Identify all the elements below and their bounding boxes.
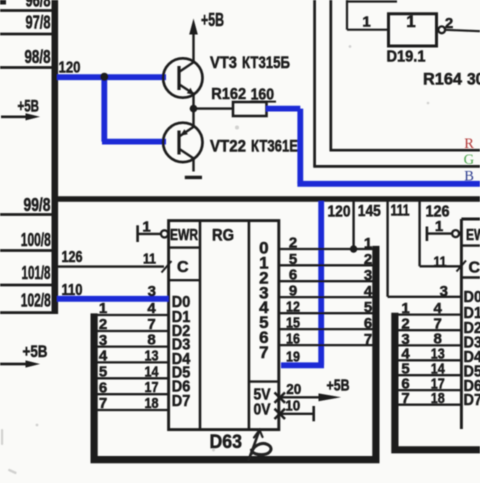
wire R video vertical <box>329 0 332 150</box>
svg-text:B: B <box>464 168 474 184</box>
svg-text:8: 8 <box>147 332 155 349</box>
bus separator line 2 <box>0 33 52 36</box>
signal letter R (red) <box>464 136 474 152</box>
svg-text:R162: R162 <box>211 86 246 103</box>
output label 1 <box>259 254 268 273</box>
wire D63 pin19 to net 120 (blue) <box>281 362 324 368</box>
label KT315B type <box>242 53 290 72</box>
connector X2 pin label 1 <box>364 235 372 252</box>
svg-text:7: 7 <box>147 316 155 333</box>
label D0 <box>172 294 191 311</box>
pin number 17 <box>145 379 159 396</box>
bus separator line 4 <box>0 213 52 216</box>
label VT22 <box>210 137 246 156</box>
label D5 right chip <box>464 364 480 381</box>
output label 4 <box>259 298 269 317</box>
connector X1 pin label 3 <box>99 332 107 349</box>
connector X3 pin label 3 <box>401 331 409 348</box>
thick border line of lower section <box>55 196 480 202</box>
wire net 126 vertical <box>418 202 420 267</box>
node junction dot emitters <box>190 105 198 113</box>
svg-text:5: 5 <box>289 251 297 268</box>
svg-text:3: 3 <box>440 283 448 300</box>
label EWR right chip <box>466 227 480 244</box>
svg-text:6: 6 <box>364 315 372 332</box>
svg-text:2: 2 <box>445 15 453 32</box>
junction dot net 145 <box>350 245 357 252</box>
output label 3 <box>259 283 268 302</box>
svg-text:7: 7 <box>401 390 409 407</box>
D63 divider below C <box>169 279 200 281</box>
svg-text:2: 2 <box>364 251 372 268</box>
wire G video vertical <box>313 0 316 166</box>
pin number 14 right chip <box>431 360 446 377</box>
svg-text:+5B: +5B <box>23 342 48 361</box>
wire down right of R162 (blue) <box>297 109 303 184</box>
svg-text:VT22: VT22 <box>210 137 246 156</box>
svg-text:D7: D7 <box>172 393 191 410</box>
chip D64 top edge <box>461 218 480 221</box>
wire to gate input vertical <box>346 0 348 30</box>
svg-text:4: 4 <box>434 300 443 317</box>
output label 7 <box>259 343 268 362</box>
net label 111 <box>391 203 410 220</box>
connector X1 pin label 7 <box>99 395 107 412</box>
clock slash right chip <box>457 261 467 272</box>
svg-text:96/8: 96/8 <box>26 0 51 11</box>
bus separator line 1 <box>0 9 52 12</box>
svg-text:5: 5 <box>99 364 107 381</box>
svg-text:16: 16 <box>286 331 300 348</box>
pin number 20 <box>286 381 301 398</box>
svg-text:C: C <box>469 260 480 277</box>
op-amp gate D19.1 box <box>389 14 437 46</box>
label D63 <box>210 432 243 453</box>
junction dot net 120 <box>100 73 108 81</box>
D63 divider below EWR <box>169 246 200 248</box>
bus label 101/8 <box>22 263 51 283</box>
label D3 <box>172 337 191 354</box>
label EWR <box>170 227 198 244</box>
svg-text:0V: 0V <box>254 402 271 419</box>
clock slash D63 <box>162 261 172 273</box>
label R162 <box>211 86 246 103</box>
svg-text:17: 17 <box>145 379 159 396</box>
pin number 5 <box>289 251 297 268</box>
output label 0 <box>259 239 268 258</box>
label D4 <box>172 351 191 368</box>
EWR pin tick <box>136 225 139 242</box>
svg-text:+5B: +5B <box>327 378 350 395</box>
label D5 <box>172 365 191 382</box>
EWR bubble right chip <box>452 230 459 237</box>
pin number 9 <box>289 283 297 300</box>
pin number 3 right chip <box>440 283 448 300</box>
scan edge blob top-left <box>0 0 6 5</box>
power label +5B upper-left <box>18 97 40 116</box>
net label 145 <box>358 203 381 220</box>
wire right chip D2 row <box>396 329 461 331</box>
svg-text:G: G <box>464 152 475 168</box>
output label 6 <box>259 328 268 347</box>
pin number 8 <box>147 332 155 349</box>
pin number 4 right chip <box>434 300 443 317</box>
pin number 12 <box>286 299 300 316</box>
pin number 17 right chip <box>431 375 445 392</box>
svg-text:1: 1 <box>99 300 107 317</box>
pin number 1 EWR <box>142 219 150 236</box>
D63 divider right column <box>248 221 251 430</box>
svg-text:9: 9 <box>289 283 297 300</box>
svg-text:18: 18 <box>145 395 159 412</box>
gate function label 1 <box>406 12 415 31</box>
svg-text:D0: D0 <box>464 289 480 306</box>
pin number 13 <box>145 347 159 364</box>
svg-text:+5B: +5B <box>18 97 40 116</box>
wire D1 input row <box>92 314 169 316</box>
wire net 120 vertical (blue) <box>318 201 324 365</box>
connector X3 pin label 7 <box>401 390 409 407</box>
wire D3 input row <box>92 345 169 347</box>
D64 divider below C <box>461 276 480 278</box>
svg-text:98/8: 98/8 <box>25 47 51 67</box>
D63 divider above 5V <box>249 380 279 382</box>
wire node to R162 <box>194 107 234 109</box>
svg-text:18: 18 <box>431 390 445 407</box>
svg-text:10: 10 <box>285 398 300 415</box>
svg-text:12: 12 <box>286 299 300 316</box>
pin number 11 right chip <box>434 253 447 270</box>
pin number 18 <box>145 395 159 412</box>
power label +5B at D63 <box>327 378 350 395</box>
svg-text:R164: R164 <box>423 70 463 89</box>
power arrow upper-left <box>1 113 40 120</box>
pin number 11 <box>143 251 156 268</box>
power arrow +5B at VT3 collector <box>189 19 198 35</box>
label 5V <box>254 387 271 404</box>
wire right chip D3 row <box>396 344 461 346</box>
wire net 120 branch down (blue) <box>101 75 107 142</box>
label D7 right chip <box>464 392 480 409</box>
pin number 6 <box>289 267 297 284</box>
scan noise marks <box>1 45 429 474</box>
svg-text:6: 6 <box>289 267 297 284</box>
connector X2 pin label 5 <box>364 299 372 316</box>
svg-text:1: 1 <box>401 300 409 317</box>
bus separator line 3 <box>0 66 52 69</box>
pin number 19 <box>286 349 300 366</box>
pin number 15 <box>286 315 300 332</box>
label VT3 <box>210 53 237 72</box>
svg-text:D7: D7 <box>464 392 480 409</box>
svg-text:2: 2 <box>99 316 107 333</box>
connector X3 pin label 4 <box>401 346 410 363</box>
bus label 97/8 <box>26 13 51 33</box>
wire stub top edge <box>347 0 397 2</box>
svg-text:99/8: 99/8 <box>24 195 51 215</box>
output label 5 <box>259 313 268 332</box>
pin number 13 right chip <box>431 346 445 363</box>
wire D7 input row <box>92 409 169 411</box>
svg-text:120: 120 <box>59 60 81 77</box>
EWR pin tick right chip <box>426 227 429 242</box>
label D2 right chip <box>464 320 480 337</box>
svg-text:300: 300 <box>467 70 480 89</box>
label C <box>177 259 189 276</box>
svg-text:100/8: 100/8 <box>21 230 51 250</box>
svg-text:7: 7 <box>259 343 268 362</box>
svg-text:15: 15 <box>286 315 300 332</box>
connector X3 pin label 5 <box>401 361 409 378</box>
net label 126 at bus <box>62 249 83 266</box>
net label 120 top row <box>328 204 351 221</box>
power label +5B lower-left <box>23 342 48 361</box>
wire right chip D6 row <box>396 389 461 391</box>
wire EWR pin right chip <box>427 232 452 234</box>
bus label 100/8 <box>21 230 51 250</box>
transistor VT22 <box>163 109 202 172</box>
svg-text:VT3: VT3 <box>210 53 237 72</box>
pin number 18 right chip <box>431 390 445 407</box>
label C right chip <box>469 260 480 277</box>
wire output row 3 <box>279 280 373 282</box>
svg-text:97/8: 97/8 <box>26 13 51 33</box>
pen scribble mark <box>249 430 271 460</box>
EWR inversion bubble <box>161 230 168 237</box>
svg-text:111: 111 <box>391 203 410 220</box>
svg-text:5: 5 <box>364 299 372 316</box>
svg-text:13: 13 <box>145 347 159 364</box>
ground symbol at VT22 collector <box>185 176 202 179</box>
bus separator line 5 <box>0 249 52 252</box>
svg-text:20: 20 <box>286 381 301 398</box>
svg-text:3: 3 <box>148 283 156 300</box>
bus label 96/8 (clipped) <box>26 0 51 11</box>
label R164 <box>423 70 463 89</box>
connector X2 pin label 4 <box>364 283 373 300</box>
label D19.1 <box>387 49 426 66</box>
pin number 7 <box>147 316 155 333</box>
label D7 <box>172 393 191 410</box>
wire D4 input row <box>92 361 169 363</box>
wire gate output <box>445 30 480 31</box>
label D6 <box>172 379 191 396</box>
0V pin tick <box>312 406 315 421</box>
connector X1 pin label 1 <box>99 300 107 317</box>
register chip D64 left edge <box>460 219 463 429</box>
connector X3 pin label 1 <box>401 300 409 317</box>
connector frame 2 (thick) <box>395 313 480 450</box>
resistor R162 <box>233 102 267 116</box>
wire output row 1 <box>279 248 373 250</box>
svg-text:1: 1 <box>364 235 372 252</box>
svg-text:3: 3 <box>364 267 372 284</box>
svg-text:101/8: 101/8 <box>22 263 51 283</box>
wire B video to right edge (blue) <box>297 181 480 187</box>
label D4 right chip <box>464 349 480 366</box>
wire from R162 (blue) <box>266 106 300 112</box>
connector X1 pin label 6 <box>99 379 107 396</box>
connector X3 pin label 6 <box>401 376 409 393</box>
wire right chip D4 row <box>396 359 461 361</box>
wire net 111 to D0 <box>388 296 461 298</box>
connector X1 pin label 2 <box>99 316 107 333</box>
label RG <box>212 226 234 245</box>
svg-text:RG: RG <box>212 226 234 245</box>
wire net 120 to VT3 base (blue) <box>57 74 166 80</box>
label D3 right chip <box>464 335 480 352</box>
svg-text:11: 11 <box>143 251 156 268</box>
label D2 <box>172 323 191 340</box>
transistor VT3 <box>163 31 202 109</box>
pin number 10 <box>285 398 300 415</box>
svg-text:145: 145 <box>358 203 381 220</box>
wire 0V pin <box>279 413 314 415</box>
wire net 126 to D63 C <box>58 265 164 267</box>
wire to gate input horizontal <box>347 29 389 31</box>
wire output row 6 <box>279 328 373 330</box>
wire output row 2 <box>279 264 373 266</box>
net label 110 at bus <box>62 282 83 299</box>
svg-text:КТ315Б: КТ315Б <box>242 53 290 72</box>
net label 126 top row <box>426 204 450 221</box>
signal letter G (green) <box>464 152 475 168</box>
label KT361E type <box>251 137 298 156</box>
asterisk mark 0V pin <box>275 409 286 419</box>
value label 160 underlined <box>250 87 276 104</box>
pin number 7 right chip <box>434 315 442 332</box>
label D1 right chip <box>464 305 480 322</box>
svg-text:1: 1 <box>435 218 443 235</box>
connector X3 pin label 2 <box>401 316 409 333</box>
wire 5V pin to +5B <box>279 393 341 401</box>
wire R video horizontal <box>330 149 480 152</box>
svg-text:EWR: EWR <box>466 227 480 244</box>
svg-text:4: 4 <box>99 348 108 365</box>
bus separator line 7 <box>0 311 52 314</box>
connector X1 pin label 5 <box>99 364 107 381</box>
wire output row 4 <box>279 296 373 298</box>
label D1 <box>172 309 191 326</box>
power label +5B top <box>201 10 224 30</box>
wire D5 input row <box>92 377 169 379</box>
svg-text:102/8: 102/8 <box>21 291 51 311</box>
register chip D63 body <box>169 221 279 430</box>
wire net 120 to VT22 base (blue) <box>102 139 166 145</box>
svg-text:1: 1 <box>362 14 370 31</box>
svg-text:1: 1 <box>142 219 150 236</box>
power arrow lower-left <box>0 360 40 367</box>
wire net 126 to C pin <box>420 265 460 267</box>
svg-text:7: 7 <box>99 395 107 412</box>
wire G video horizontal <box>313 165 480 168</box>
svg-text:3: 3 <box>99 332 107 349</box>
pin number 1 right chip <box>435 218 443 235</box>
wire net 110 to D0 (blue) <box>57 296 169 302</box>
svg-text:2: 2 <box>289 235 297 252</box>
pin number 3 <box>148 283 156 300</box>
svg-text:120: 120 <box>328 204 351 221</box>
pin number 14 <box>145 363 160 380</box>
pin number 2 <box>289 235 297 252</box>
wire EWR pin <box>138 233 161 235</box>
svg-text:КТ361Е: КТ361Е <box>251 137 298 156</box>
net label 120 at bus <box>59 60 81 77</box>
connector X2 pin label 2 <box>364 251 372 268</box>
signal letter B (blue) <box>464 168 474 184</box>
label D0 right chip <box>464 289 480 306</box>
wire output row 5 <box>279 312 373 314</box>
asterisk mark 5V pin <box>275 393 286 403</box>
wire output row 7 <box>279 344 373 346</box>
D63 divider left column <box>199 221 202 430</box>
wire net 111 vertical <box>386 202 388 297</box>
bus label 99/8 <box>24 195 51 215</box>
svg-text:11: 11 <box>434 253 447 270</box>
svg-text:+5B: +5B <box>201 10 224 30</box>
bus label 98/8 <box>25 47 51 67</box>
bus separator line 6 <box>0 284 52 287</box>
wire right chip D7 row <box>396 404 461 406</box>
svg-text:14: 14 <box>145 363 160 380</box>
connector X2 pin label 7 <box>364 331 372 348</box>
wire right chip D5 row <box>396 374 461 376</box>
svg-text:126: 126 <box>62 249 83 266</box>
svg-text:4: 4 <box>147 300 156 317</box>
wire net 145 vertical <box>352 202 354 250</box>
left bus bar <box>52 0 59 314</box>
output label 2 <box>259 268 268 287</box>
svg-text:4: 4 <box>364 283 373 300</box>
connector X2 pin label 3 <box>364 267 372 284</box>
svg-text:R: R <box>464 136 474 152</box>
wire D2 input row <box>92 330 169 332</box>
pin label 1 gate input <box>362 14 370 31</box>
label 300 (clipped) <box>467 70 480 89</box>
pin number 16 <box>286 331 300 348</box>
svg-text:EWR: EWR <box>170 227 198 244</box>
connector X2 pin label 6 <box>364 315 372 332</box>
pin number 4 <box>147 300 156 317</box>
svg-text:7: 7 <box>364 331 372 348</box>
label 0V <box>254 402 271 419</box>
svg-text:C: C <box>177 259 189 276</box>
svg-text:6: 6 <box>99 379 107 396</box>
connector X1 pin label 4 <box>99 348 108 365</box>
D64 divider below EWR <box>461 244 480 246</box>
pin label 2 gate output <box>445 15 453 32</box>
connector frame (thick U) <box>94 246 376 460</box>
svg-text:D19.1: D19.1 <box>387 49 426 66</box>
pin number 8 right chip <box>434 331 442 348</box>
wire D6 input row <box>92 393 169 395</box>
wire right chip D1 row <box>396 313 461 315</box>
label D6 right chip <box>464 378 480 395</box>
bus label 102/8 <box>21 291 51 311</box>
gate output bubble <box>438 26 445 33</box>
svg-text:1: 1 <box>406 12 415 31</box>
